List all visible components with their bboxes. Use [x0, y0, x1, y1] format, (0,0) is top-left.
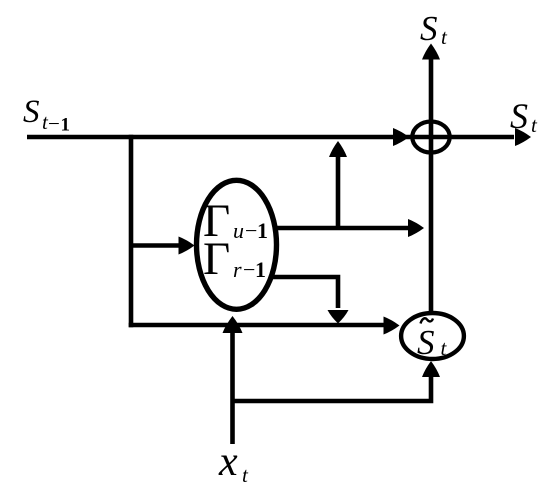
svg-text:u: u — [233, 218, 244, 243]
svg-text:−: − — [245, 218, 257, 243]
svg-text:S: S — [510, 96, 528, 136]
svg-text:−: − — [243, 257, 255, 282]
svg-text:1: 1 — [257, 218, 268, 243]
svg-text:1: 1 — [255, 257, 266, 282]
svg-text:S: S — [420, 9, 438, 48]
svg-text:S: S — [23, 94, 40, 130]
svg-text:−: − — [48, 112, 60, 136]
svg-text:S: S — [417, 323, 435, 362]
svg-text:Γ: Γ — [203, 233, 230, 285]
svg-text:r: r — [233, 257, 242, 282]
svg-text:1: 1 — [61, 115, 71, 136]
svg-text:x: x — [218, 439, 238, 485]
